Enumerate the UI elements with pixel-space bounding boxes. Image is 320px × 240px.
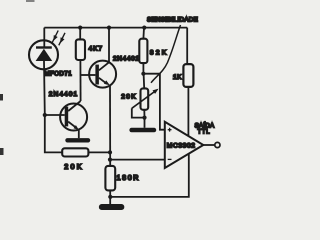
transistor Q2 base bar — [65, 107, 69, 127]
node 20K tee — [108, 150, 112, 154]
wire op-amp output — [203, 144, 214, 146]
op-amp minus sign — [168, 158, 172, 160]
light arrow 1 — [52, 31, 58, 44]
wire wiper tail to pot bottom — [132, 108, 145, 117]
scan artifact top edge — [26, 0, 35, 2]
svg-text:MC3302: MC3302 — [167, 143, 196, 150]
node 180R bottom — [108, 195, 112, 199]
scan artifact left edge 2 — [0, 148, 4, 155]
ground 180R — [99, 204, 124, 210]
terminal output circle — [215, 142, 220, 147]
svg-text:20K: 20K — [64, 162, 83, 171]
wire pot node to ground — [144, 118, 146, 128]
wire pot bottom — [143, 110, 145, 118]
wire rail to 4K7 — [79, 28, 81, 40]
scan artifact left edge 1 — [0, 94, 3, 101]
node Q2 base tee — [43, 113, 47, 117]
resistor 4K7 — [76, 39, 85, 60]
resistor 180R — [105, 166, 115, 191]
transistor Q2 emitter stroke — [68, 122, 76, 128]
wire 82K bottom — [142, 63, 144, 74]
sensitivity leader curve — [151, 25, 181, 83]
svg-text:4K7: 4K7 — [89, 45, 103, 52]
node rail/Q1 collector — [107, 26, 111, 30]
wire photodiode bottom / left rail — [44, 61, 62, 152]
wire 180R bottom to ground — [109, 190, 111, 204]
transistor Q1 emitter stroke — [99, 78, 107, 84]
wire photodiode top — [43, 28, 45, 47]
wire Q1 collector to rail — [108, 28, 110, 63]
svg-text:MFOD71: MFOD71 — [45, 72, 73, 78]
resistor 20K feedback — [62, 148, 88, 156]
svg-text:20K: 20K — [121, 93, 137, 100]
svg-text:SENSIBILIDADE: SENSIBILIDADE — [147, 16, 198, 23]
node pot bottom — [142, 116, 146, 120]
op-amp plus sign — [168, 128, 172, 132]
resistor 1K — [183, 64, 193, 87]
svg-text:1K: 1K — [173, 74, 182, 81]
wire top supply rail — [44, 27, 187, 29]
wire 4K7 bottom to Q2 collector — [79, 60, 81, 101]
wire Q1 emitter down to 180R — [109, 85, 111, 166]
transistor Q1 collector stroke — [99, 62, 109, 70]
wire Q2 base — [45, 114, 65, 116]
transistor Q1 base bar — [95, 65, 99, 85]
svg-text:TTL: TTL — [198, 128, 211, 135]
node minus input tee — [108, 158, 112, 162]
light arrow 2 — [59, 33, 65, 46]
wire Q2 emitter to ground — [78, 130, 80, 139]
wire minus input — [110, 159, 165, 161]
transistor Q1 2N4401 circle — [89, 61, 116, 88]
svg-text:180R: 180R — [117, 173, 141, 182]
svg-text:2N4401: 2N4401 — [113, 55, 140, 62]
op-amp U1 MC3302 triangle — [165, 122, 204, 168]
ground pot — [129, 128, 156, 133]
wire rail to 82K — [142, 28, 145, 39]
node rail/82K — [142, 26, 146, 30]
transistor Q1 emitter arrowhead — [104, 80, 110, 85]
wire op-amp supply pin to ground node — [110, 154, 189, 197]
transistor Q2 emitter arrowhead — [74, 125, 80, 130]
potentiometer 20K body — [141, 88, 149, 109]
transistor Q2 collector stroke — [68, 101, 80, 111]
node divider — [141, 72, 145, 76]
svg-text:2N4401: 2N4401 — [49, 91, 78, 98]
wire node to pot top — [143, 74, 146, 89]
wire Q1 base — [81, 74, 96, 76]
photodiode MFOD71 circle — [29, 40, 58, 69]
transistor Q2 2N4401 circle — [60, 104, 87, 131]
svg-text:82K: 82K — [150, 50, 169, 57]
wire rail right corner down to 1K — [186, 28, 188, 65]
node rail/4K7 — [78, 26, 82, 30]
photodiode triangle — [36, 49, 53, 61]
resistor 82K — [139, 39, 147, 63]
potentiometer wiper arrow — [132, 92, 155, 109]
wire 1K bottom to op-amp output edge — [187, 87, 189, 137]
wire 20K right to node — [88, 151, 110, 153]
wire divider node to op-amp plus input — [143, 74, 164, 130]
ground Q2 emitter — [65, 138, 90, 142]
photodiode cathode bar — [36, 46, 52, 48]
